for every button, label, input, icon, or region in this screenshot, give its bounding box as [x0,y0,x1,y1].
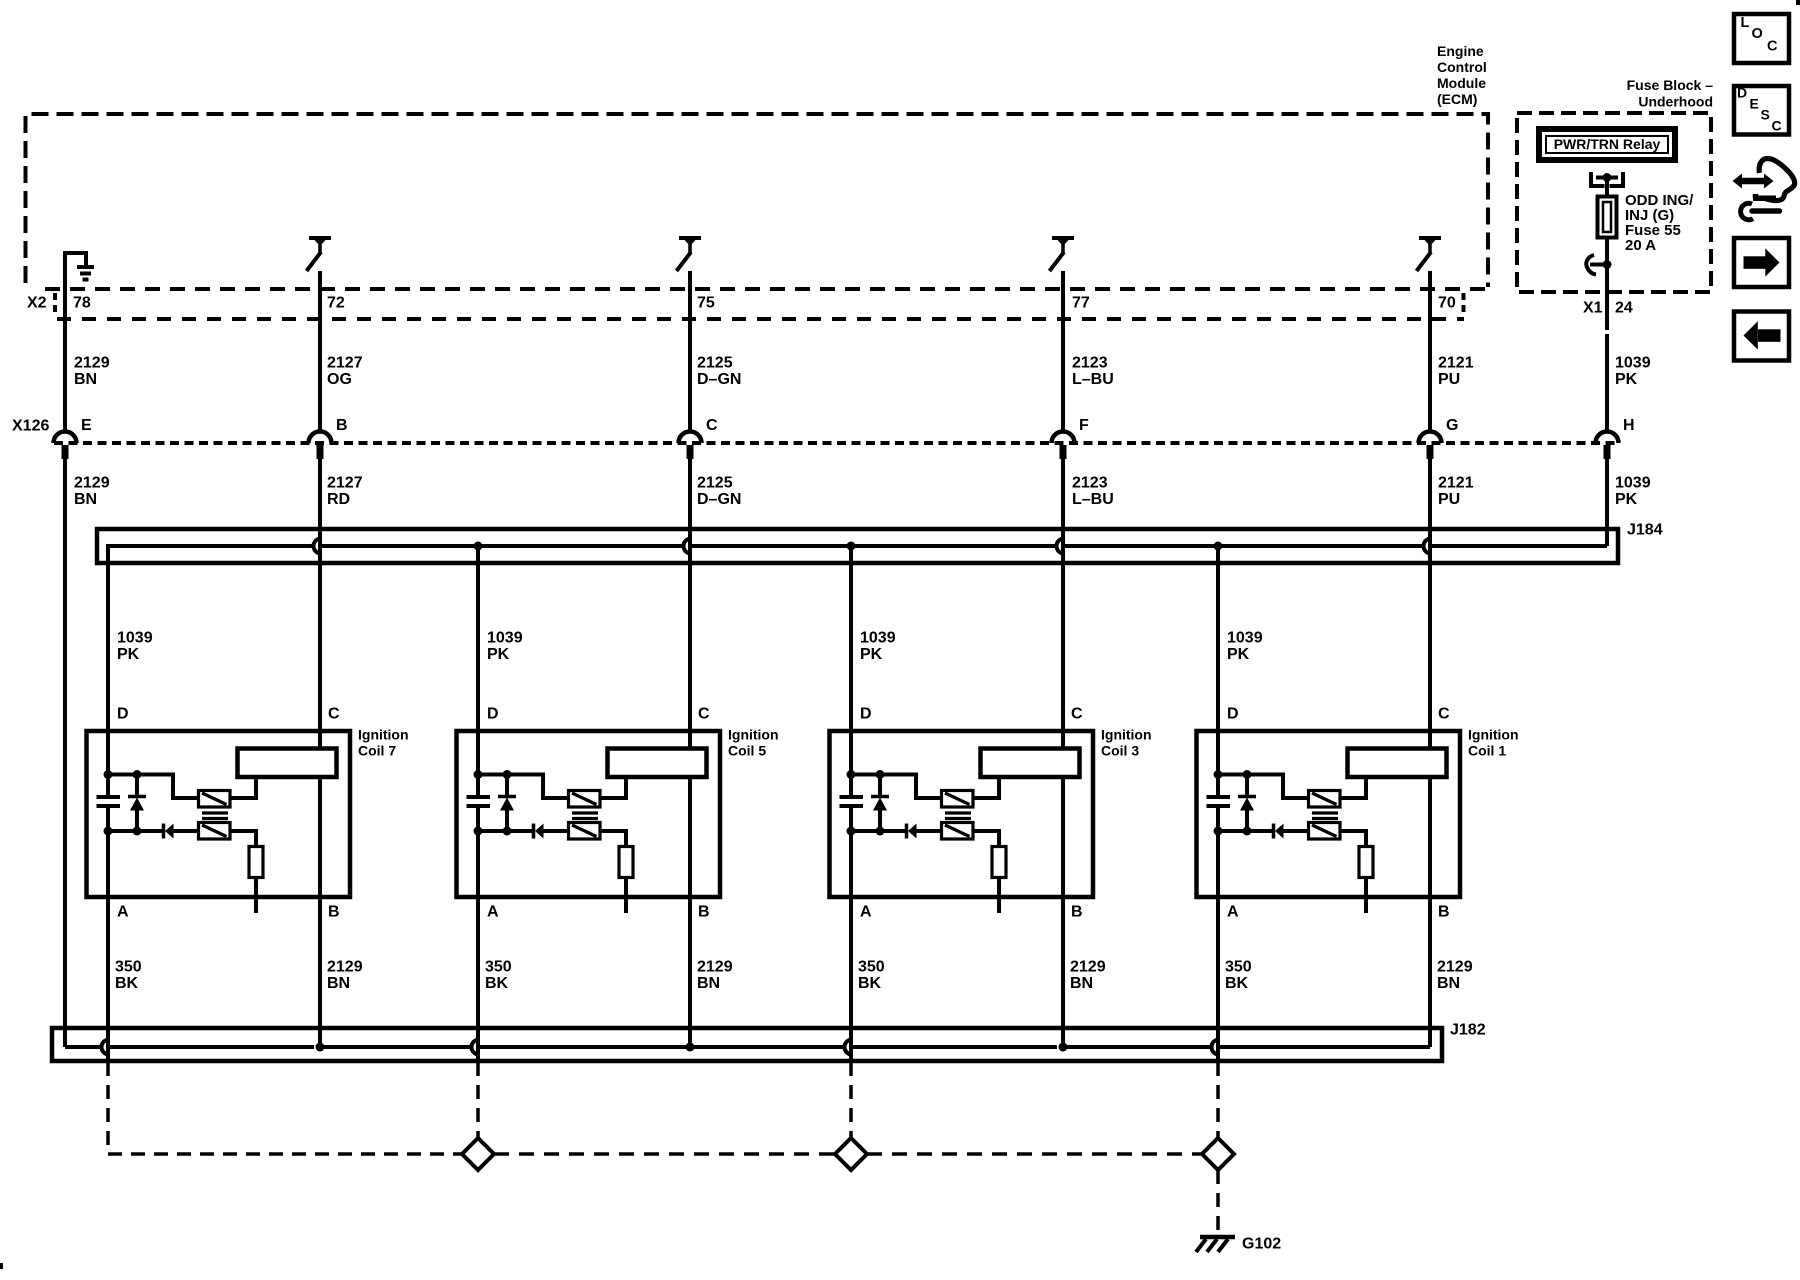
coil 1 driver stage upper (crossed box) [1309,791,1341,808]
junction dot on J184 bus [474,542,483,551]
svg-text:A: A [487,904,499,921]
coil 5 coupling bars [572,811,598,814]
svg-text:PK: PK [1227,646,1250,663]
wire: ECM pin 72 down to X126 (driver output) [318,271,322,432]
coil 5 internal connector block [608,749,707,778]
wire: coil 3 pin B down to splice pack J182 (2129 BN) [1061,779,1065,1047]
coil 3 resistor [992,847,1006,878]
connector X126 cavity H (half-circle terminal) [1596,432,1619,444]
svg-text:PK: PK [860,646,883,663]
svg-text:2121: 2121 [1438,475,1474,492]
coil 3 coupling bars [945,811,971,814]
svg-text:2129: 2129 [697,959,733,976]
svg-text:RD: RD [327,491,350,508]
svg-text:1039: 1039 [1615,355,1651,372]
svg-text:72: 72 [327,295,345,312]
connector X126 cavity C (half-circle terminal) [679,432,702,444]
junction dot on J184 bus [847,542,856,551]
svg-text:2125: 2125 [697,475,733,492]
coil 7 driver stage lower (crossed box) [199,823,231,840]
coil 1 junction dots [1214,770,1223,779]
junction dot on J182 bus [1059,1043,1068,1052]
coil 1 driver stage lower (crossed box) [1309,823,1341,840]
svg-text:E: E [1750,96,1759,112]
junction dot on J182 bus [316,1043,325,1052]
ECM driver switch at pin 77 [1052,236,1074,240]
svg-text:D–GN: D–GN [697,491,741,508]
coil 7 junction dots [104,770,113,779]
svg-text:C: C [698,706,710,723]
dashed ground lead from J182 (splice S3) [849,1062,853,1138]
LOC icon box [1734,14,1789,63]
svg-text:L–BU: L–BU [1072,371,1114,388]
svg-text:1039: 1039 [117,630,153,647]
svg-text:D: D [117,706,129,723]
svg-text:B: B [336,417,348,434]
svg-text:C: C [1772,118,1782,134]
Fuse Block - Underhood dashed box outline [1517,113,1711,292]
svg-text:2125: 2125 [697,355,733,372]
svg-text:E: E [81,417,92,434]
svg-text:PWR/TRN Relay: PWR/TRN Relay [1554,136,1661,152]
wire: J184 to ignition coil pin D (1039 PK, coil column 3) [849,546,853,797]
ECM driver switch at pin 75 [679,236,701,240]
forward arrow icon box [1734,238,1789,287]
connector X2 boundary tick (right) [1462,293,1466,317]
connector X126 cavity E (half-circle terminal) [54,432,77,444]
coil 7 zener diode [135,775,139,797]
wire: J184 to ignition coil pin D (1039 PK, coil column 2) [476,546,480,797]
coil 1 driver link to resistor [1340,831,1366,847]
coil 1 zener diode [1245,775,1249,797]
wire: fuse to fuse block connector clip [1605,238,1609,265]
svg-text:BK: BK [485,975,509,992]
svg-text:1039: 1039 [1615,475,1651,492]
wire: X126-F down through J184 to ignition coil (supply) [1061,457,1065,749]
svg-text:A: A [860,904,872,921]
ground symbol inside ECM (pin 78) [65,253,86,265]
svg-text:PK: PK [1615,491,1638,508]
svg-text:2121: 2121 [1438,355,1474,372]
coil 1 coupling bars [1312,811,1338,814]
coil 3 driver link to connector block [973,779,999,798]
coil 3 diode [851,829,905,833]
svg-text:BN: BN [1437,975,1460,992]
svg-text:20 A: 20 A [1625,237,1656,254]
svg-text:78: 78 [73,295,91,312]
svg-text:Coil 5: Coil 5 [728,743,766,759]
svg-text:L: L [1741,15,1750,31]
svg-text:PU: PU [1438,491,1460,508]
splice pack J182 inner bus line [65,1045,102,1049]
coil 7 resistor [249,847,263,878]
connector X2 boundary tick (left) [53,293,57,315]
coil 1 spark output stub [1364,878,1368,914]
coil 1 diode [1218,829,1272,833]
dashed ground bus segment 1 [494,1152,835,1156]
fuse ODD ING/INJ (G) Fuse 55 20 A symbol [1598,197,1617,238]
svg-text:L–BU: L–BU [1072,491,1114,508]
coil 5 zener diode [505,775,509,797]
svg-text:1039: 1039 [860,630,896,647]
svg-text:C: C [1071,706,1083,723]
splice pack J182 outer rectangle [52,1028,1442,1061]
svg-text:D: D [487,706,499,723]
wire: X126-H down to splice pack J184 (1039 PK) [1605,457,1609,546]
wire: X126-E down to splice pack J182 (2129 BN, long left wire) [63,457,67,1047]
DESC icon box [1734,86,1789,135]
svg-text:H: H [1623,417,1635,434]
svg-text:Coil 1: Coil 1 [1468,743,1506,759]
svg-text:70: 70 [1438,295,1456,312]
svg-text:2123: 2123 [1072,475,1108,492]
svg-text:Ignition: Ignition [358,727,409,743]
coil 3 driver stage lower (crossed box) [942,823,974,840]
wire: ECM pin 75 down to X126 (driver output) [688,271,692,432]
coil 7 coupling bars [202,811,228,814]
connector X126 cavity B (half-circle terminal) [309,432,332,444]
svg-text:BN: BN [74,371,97,388]
svg-text:C: C [1767,39,1778,55]
ignition coil 5 box [457,731,721,897]
svg-text:350: 350 [485,959,512,976]
coil 3 spark output stub [997,878,1001,914]
svg-text:PU: PU [1438,371,1460,388]
wire: coil 1 pin B down to splice pack J182 (2129 BN) [1428,779,1432,1047]
svg-text:D: D [860,706,872,723]
splice diamond 1 [462,1138,494,1170]
splice diamond 3 [1202,1138,1234,1170]
wire: coil 7 pin A down to splice pack J182 (350 BK) [106,806,110,1061]
wire: coil 1 pin A down to splice pack J182 (350 BK) [1216,806,1220,1061]
svg-text:C: C [1438,706,1450,723]
svg-text:PK: PK [487,646,510,663]
coil 7 driver link to connector block [230,779,256,798]
wire: ECM pin 70 down to X126 (driver output) [1428,271,1432,432]
svg-text:A: A [117,904,129,921]
wire: coil 5 pin A down to splice pack J182 (350 BK) [476,806,480,1061]
relay terminal bracket [1591,172,1605,186]
coil 1 capacitor [1207,795,1231,799]
Engine Control Module (ECM) dashed box outline [26,114,1489,287]
svg-text:24: 24 [1615,300,1633,317]
coil 5 driver stage lower (crossed box) [569,823,601,840]
svg-text:J184: J184 [1627,522,1663,539]
chassis ground G102 symbol [1200,1235,1235,1240]
svg-text:Control: Control [1437,59,1487,75]
svg-text:B: B [698,904,710,921]
svg-text:A: A [1227,904,1239,921]
coil 3 driver stage upper (crossed box) [942,791,974,808]
svg-text:350: 350 [1225,959,1252,976]
svg-text:D: D [1737,85,1747,101]
svg-text:2127: 2127 [327,355,363,372]
svg-text:1039: 1039 [487,630,523,647]
svg-text:G: G [1446,417,1458,434]
svg-text:B: B [1071,904,1083,921]
svg-text:Underhood: Underhood [1638,94,1713,110]
coil 7 driver link to resistor [230,831,256,847]
svg-text:C: C [706,417,718,434]
coil 3 capacitor [840,795,864,799]
svg-text:BN: BN [74,491,97,508]
wire: J184 to ignition coil pin D (1039 PK, coil column 1) [106,546,110,797]
coil 3 internal connector block [981,749,1080,778]
coil 7 spark output stub [254,878,258,914]
svg-text:77: 77 [1072,295,1090,312]
svg-text:(ECM): (ECM) [1437,91,1477,107]
svg-text:Fuse Block –: Fuse Block – [1627,77,1714,93]
svg-text:350: 350 [115,959,142,976]
coil 5 internal node wiring (top) [478,775,569,799]
svg-text:BK: BK [1225,975,1249,992]
svg-text:2129: 2129 [1070,959,1106,976]
relay PWR/TRN Relay box [1539,129,1675,160]
wire: X126-G down through J184 to ignition coil (supply) [1428,457,1432,749]
svg-text:S: S [1761,107,1770,123]
coil 7 internal connector block [238,749,337,778]
svg-text:D: D [1227,706,1239,723]
splice pack J184 inner bus line [106,544,314,548]
wire jump bump on J182 bus [102,1040,110,1055]
coil 7 internal node wiring (top) [108,775,199,799]
dashed ground bus segment 2 [867,1152,1202,1156]
wire jump bump on J184 bus [684,539,691,554]
svg-text:75: 75 [697,295,715,312]
fuse block output terminal clip [1586,255,1596,275]
svg-text:D–GN: D–GN [697,371,741,388]
coil 5 resistor [619,847,633,878]
dashed ground lead from J182 (splice S2) [476,1062,480,1138]
ECM connector face heavy dashed line [45,287,1487,291]
svg-text:O: O [1752,26,1763,42]
svg-text:2129: 2129 [327,959,363,976]
coil 5 driver stage upper (crossed box) [569,791,601,808]
coil 1 driver link to connector block [1340,779,1366,798]
wire: coil 5 pin B down to splice pack J182 (2129 BN) [688,779,692,1047]
page corner mark (bottom left) [0,1263,3,1269]
page corner mark (top right) [1796,0,1800,5]
coil 5 driver link to connector block [600,779,626,798]
ECM driver switch at pin 72 [309,236,331,240]
svg-text:OG: OG [327,371,352,388]
back arrow icon box [1734,312,1789,361]
connector X126 cavity F (half-circle terminal) [1052,432,1075,444]
svg-text:B: B [328,904,340,921]
svg-text:Module: Module [1437,75,1486,91]
coil 3 junction dots [847,770,856,779]
connector X2 dotted line [57,317,1464,321]
svg-text:F: F [1079,417,1089,434]
wire jump bump on J182 bus [845,1040,852,1055]
svg-text:C: C [328,706,340,723]
wire: ECM pin 77 down to X126 (driver output) [1061,271,1065,432]
splice pack J184 outer rectangle [97,529,1618,563]
svg-text:2129: 2129 [74,475,110,492]
svg-text:X2: X2 [27,295,47,312]
ignition coil 3 box [830,731,1094,897]
svg-text:Ignition: Ignition [1101,727,1152,743]
junction dot on J184 bus [1214,542,1223,551]
wire: fuse block pin 24 down to X126 pin H (1039 PK) [1605,265,1609,331]
dashed ground lead to G102 [1216,1170,1220,1230]
wire: relay to fuse [1605,178,1609,197]
coil 3 internal node wiring (top) [851,775,942,799]
splice diamond 2 [835,1138,867,1170]
wire: coil 7 pin B down to splice pack J182 (2129 BN) [318,779,322,1047]
svg-text:PK: PK [117,646,140,663]
svg-text:BN: BN [1070,975,1093,992]
coil 5 spark output stub [624,878,628,914]
wire jump bump on J184 bus [314,539,321,554]
svg-text:2123: 2123 [1072,355,1108,372]
svg-text:X1: X1 [1583,300,1603,317]
coil 7 driver stage upper (crossed box) [199,791,231,808]
wire: X126-B down through J184 to ignition coil (supply) [318,457,322,749]
dashed ground lead from J182 (left) [108,1062,462,1154]
dashed ground lead from J182 (splice S4) [1216,1062,1220,1138]
svg-text:BN: BN [327,975,350,992]
coil 7 capacitor [97,795,121,799]
coil 5 junction dots [474,770,483,779]
wire jump bump on J182 bus [472,1040,480,1055]
ignition coil 7 box [87,731,351,897]
svg-text:2127: 2127 [327,475,363,492]
wire: X126-C down through J184 to ignition coil (supply) [688,457,692,749]
ignition coil 1 box [1197,731,1461,897]
svg-text:G102: G102 [1242,1236,1281,1253]
svg-text:X126: X126 [12,418,49,435]
wire jump bump on J184 bus [1424,539,1432,554]
coil 5 driver link to resistor [600,831,626,847]
connector X126 dotted line [54,441,1619,445]
svg-text:2129: 2129 [74,355,110,372]
svg-text:B: B [1438,904,1450,921]
junction dot on J182 bus [686,1043,695,1052]
svg-text:PK: PK [1615,371,1638,388]
svg-text:Engine: Engine [1437,43,1484,59]
coil 3 driver link to resistor [973,831,999,847]
svg-text:1039: 1039 [1227,630,1263,647]
svg-text:BK: BK [115,975,139,992]
coil 7 diode [108,829,162,833]
harness routing icon (double arrow, connector outline, wrench) [1741,178,1766,185]
svg-text:BN: BN [697,975,720,992]
coil 1 resistor [1359,847,1373,878]
coil 1 internal connector block [1348,749,1447,778]
svg-text:J182: J182 [1450,1022,1486,1039]
coil 1 internal node wiring (top) [1218,775,1309,799]
coil 3 zener diode [878,775,882,797]
wire: J184 to ignition coil pin D (1039 PK, coil column 4) [1216,546,1220,797]
coil 5 capacitor [467,795,491,799]
coil 5 diode [478,829,532,833]
svg-text:BK: BK [858,975,882,992]
svg-text:350: 350 [858,959,885,976]
wire: coil 3 pin A down to splice pack J182 (350 BK) [849,806,853,1061]
svg-text:Coil 7: Coil 7 [358,743,396,759]
wire jump bump on J184 bus [1057,539,1065,554]
svg-text:Coil 3: Coil 3 [1101,743,1139,759]
ECM driver switch at pin 70 [1419,236,1441,240]
svg-text:Ignition: Ignition [728,727,779,743]
connector X126 cavity G (half-circle terminal) [1419,432,1442,444]
svg-text:2129: 2129 [1437,959,1473,976]
wire jump bump on J182 bus [1212,1040,1220,1055]
svg-text:Ignition: Ignition [1468,727,1519,743]
wire: ECM ground to pin 78 / X126 pin E (2129 BN) [63,251,67,432]
